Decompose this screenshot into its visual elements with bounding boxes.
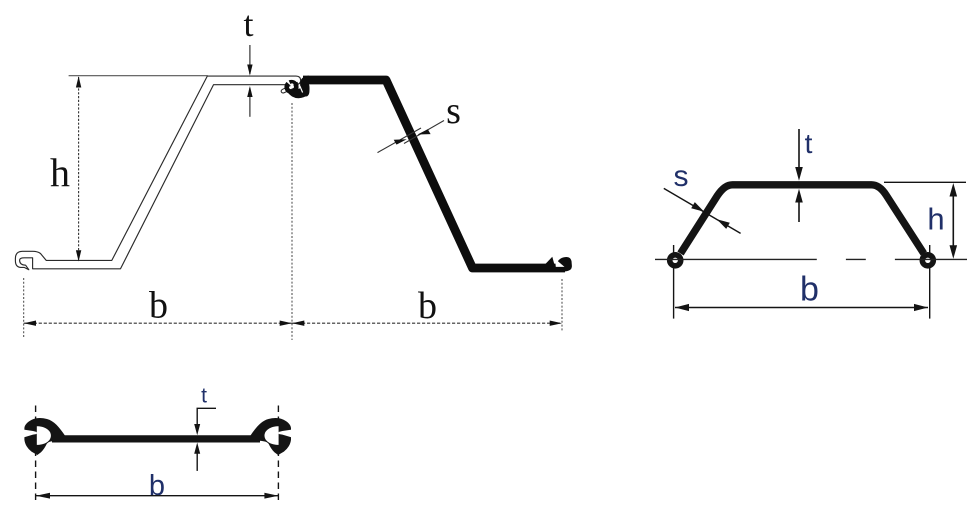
right claw interlock (250, 418, 291, 455)
ring hole (290, 83, 293, 86)
svg-text:s: s (674, 160, 689, 193)
svg-text:b: b (418, 285, 437, 327)
svg-text:s: s (446, 90, 461, 132)
left ball interlock (670, 255, 681, 266)
svg-text:h: h (50, 150, 70, 195)
left claw interlock (24, 418, 65, 455)
flat web bar (52, 435, 260, 442)
dimension h (fig1) (50, 76, 81, 261)
white pile outline (flange-web-flange with left hook interlock) (15, 76, 300, 270)
dimension t (fig1) (243, 4, 253, 117)
svg-text:t: t (201, 385, 207, 408)
axis center line (655, 258, 967, 260)
black interlock knot (center) (281, 76, 309, 99)
dimension t (fig3) (194, 385, 216, 471)
fig3 b extension line left (behind claw) (35, 406, 37, 503)
ring NW opening (284, 78, 291, 86)
right ball interlock (922, 255, 933, 266)
dimension b (fig3) (36, 470, 278, 502)
clutch e-ring over tail (287, 82, 297, 92)
comma hook under black flange start (300, 76, 309, 97)
fig3 b extension line right (behind claw) (277, 406, 279, 503)
wire: h top extension line (69, 75, 208, 77)
omega profile band (681, 185, 924, 254)
dimension s (fig2) (664, 160, 741, 233)
dimension s (fig1) (378, 90, 461, 153)
svg-text:t: t (805, 128, 813, 159)
dimension t (fig2) (795, 128, 812, 222)
svg-text:b: b (149, 470, 165, 502)
white slit (300, 86, 303, 93)
dimension b right span (fig1) (292, 285, 562, 327)
white pile flange end tail (281, 82, 298, 93)
svg-text:h: h (927, 202, 944, 237)
svg-text:b: b (149, 285, 168, 327)
black pile right hook interlock (544, 257, 572, 272)
bottom tongue joining ring and comma (288, 88, 307, 99)
dimension b (fig2) (674, 245, 930, 319)
svg-text:b: b (800, 271, 819, 309)
svg-text:t: t (243, 4, 253, 44)
black pile band (303, 80, 565, 268)
dimension b left span (fig1) (24, 285, 292, 327)
dimension h (fig2) (884, 182, 966, 258)
dimension b extension lines (fig1) (24, 103, 562, 340)
